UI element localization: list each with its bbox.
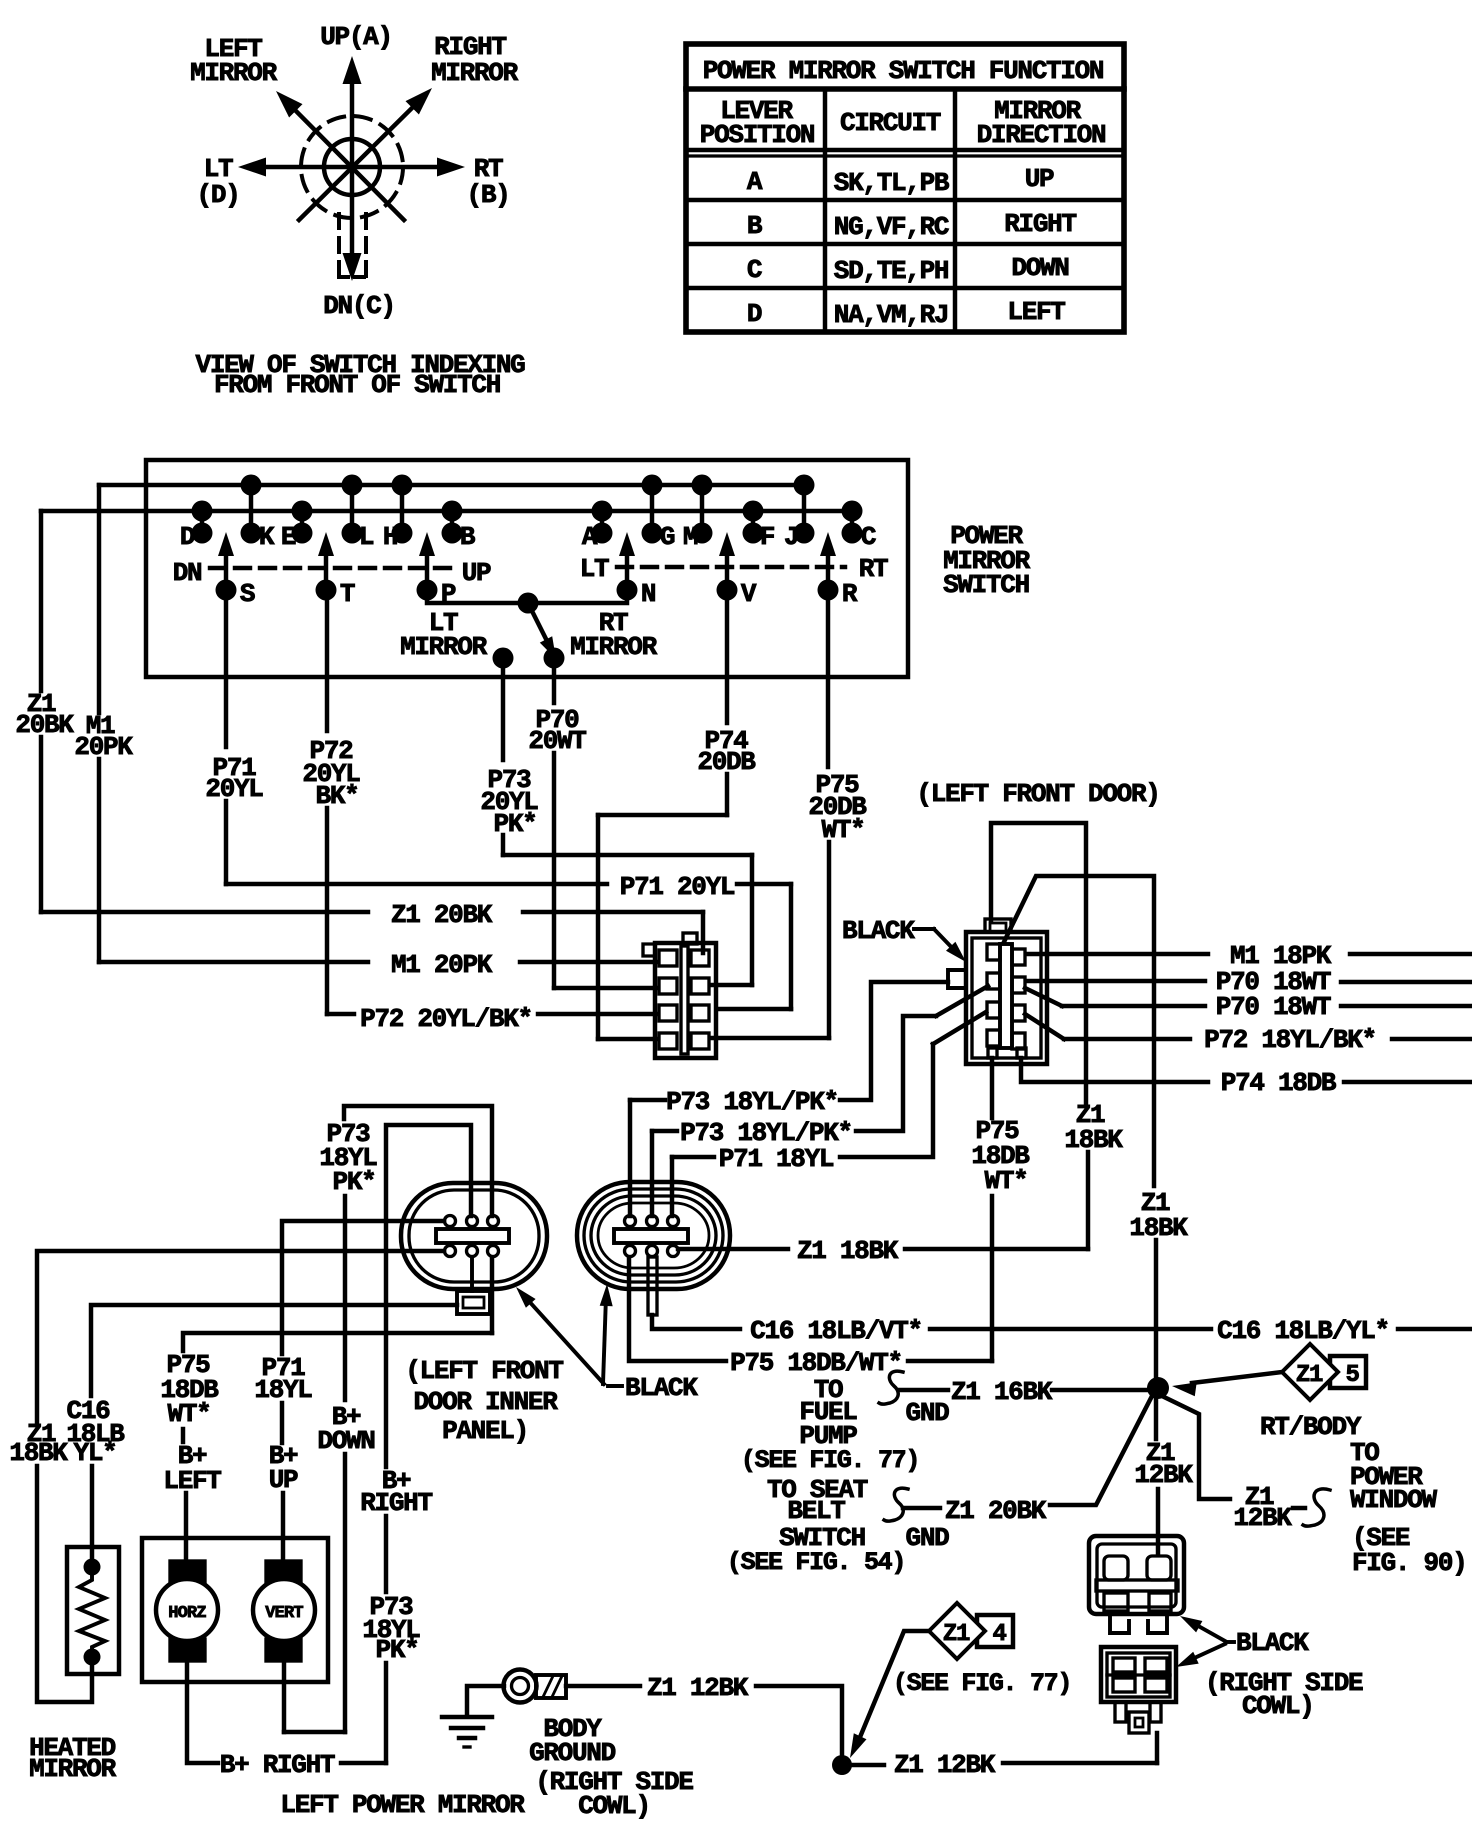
door connector right pin y1013 [1012,1005,1025,1021]
svg-text:BK*: BK* [316,781,359,811]
wire B+ RIGHT column [386,1125,471,1467]
wire Z1 20BK to connector [523,910,703,914]
inline connector left hook [643,944,655,956]
svg-text:PANEL): PANEL) [442,1416,528,1446]
wire Z1 20BK from second bus [39,511,43,691]
wire P73 18YL/PK first to door connector [840,982,948,1100]
arrow RT(B) head [437,158,465,177]
oval2 bottom pin x630 [625,1246,636,1257]
svg-text:(B): (B) [467,180,510,210]
wire Z1 12BK to power window [1164,1397,1230,1499]
oval1 bottom pin stem x493 [491,1246,494,1256]
door connector (left front door) [948,919,1047,1064]
wiper arrow S [224,556,228,590]
door connector outer shell [966,932,1047,1064]
oval1 lock tab [457,1291,490,1314]
svg-text:DOWN: DOWN [1011,253,1068,283]
dashed line LT-RT [617,565,845,569]
table row line 3 [686,286,1124,290]
svg-text:COWL): COWL) [578,1791,650,1821]
svg-text:MIRROR: MIRROR [29,1754,117,1784]
ring terminal crimp [536,1675,566,1698]
svg-text:FROM FRONT OF SWITCH: FROM FRONT OF SWITCH [214,370,500,400]
oval2 bottom pin stem x652 [650,1246,653,1256]
wire P71 18YL diagonal [933,1012,986,1044]
svg-text:LEFT POWER MIRROR: LEFT POWER MIRROR [280,1790,525,1820]
wire Z1 12BK from ring [566,1684,640,1688]
svg-text:POWER MIRROR SWITCH FUNCTION: POWER MIRROR SWITCH FUNCTION [703,56,1103,86]
BLACK arrow line to oval1 [527,1299,604,1384]
svg-text:Z1 12BK: Z1 12BK [894,1750,996,1780]
wire P to pivot [427,590,528,603]
svg-text:PK*: PK* [333,1167,376,1197]
svg-text:DIRECTION: DIRECTION [977,120,1106,150]
wire N to pivot [528,590,627,603]
ring terminal inner [512,1678,529,1695]
svg-text:A: A [582,522,598,552]
svg-text:UP: UP [269,1465,298,1495]
wire C16 to heated mirror [90,1466,94,1561]
junction dot second bus x602 [592,501,613,522]
inline connector left pin y958 [659,950,677,966]
svg-text:RT: RT [859,554,888,584]
Z1-5 box [1330,1356,1366,1388]
cowl upper right leg [1148,1614,1167,1633]
wire second bus [41,509,852,513]
contact dot R [818,580,839,601]
contact dot x804 [794,523,815,544]
svg-text:F: F [760,522,775,552]
switch indexing diagram [190,22,525,400]
wire Z1 20BK dash [903,1506,940,1510]
contact dot x602 [592,523,613,544]
inline connector (switch to door harness) [643,933,716,1058]
wire P73 first drop to oval2 [628,1100,632,1216]
wire P73 second diagonal [936,986,988,1016]
svg-text:R: R [842,579,858,609]
switch enclosure [146,460,908,677]
contact stub x202 [200,511,204,533]
junction dot Z1 12BK [832,1755,852,1775]
svg-text:C: C [861,522,876,552]
wire M1 20PK to connector [520,960,657,964]
svg-text:C: C [747,255,762,285]
svg-text:Z1: Z1 [943,1621,970,1648]
svg-text:P73 18YL/PK*: P73 18YL/PK* [666,1087,838,1117]
inline connector right pin y1013 [691,1005,709,1021]
contact stub x702 [700,485,704,533]
wiper arrow R [826,556,830,590]
oval2 top pin stem x652 [650,1216,653,1226]
VERT top terminal [266,1561,301,1583]
svg-text:D: D [747,299,762,329]
cowl connector lower outer [1101,1647,1176,1702]
cowl upper slot 1 [1104,1556,1128,1580]
cowl connector lower inner [1107,1653,1170,1697]
wire P71 20YL drop [789,884,793,1009]
wire P71 drop to oval2 [670,1157,674,1216]
svg-text:FIG. 90): FIG. 90) [1352,1548,1466,1578]
contact dot P [417,580,438,601]
cowl lower center tab inner [1135,1718,1143,1727]
wiper arrow N [625,556,629,590]
arrow UP(A) head [343,56,362,84]
wire Z1 12BK to splice [756,1686,842,1765]
oval2 top pin stem x673 [671,1216,674,1226]
dashed switch outline circle [301,116,403,218]
svg-text:P71 18YL: P71 18YL [719,1144,834,1174]
wire B+ RIGHT to column [341,1761,386,1765]
oval2 shell 2 [584,1189,723,1282]
junction dot top bus x804 [794,475,815,496]
BLACK leader line [934,929,958,954]
oval1 top pin stem x450 [448,1216,451,1226]
junction dot top bus x402 [392,475,413,496]
svg-text:B+ RIGHT: B+ RIGHT [220,1750,335,1780]
wire B+ RIGHT lower [384,1663,388,1763]
svg-text:D: D [180,522,195,552]
svg-text:20BK: 20BK [15,710,74,740]
svg-text:Z1 18BK: Z1 18BK [797,1236,899,1266]
door connector left pin y1038 [987,1030,1000,1046]
wire B+ LEFT to HORZ motor [184,1493,188,1561]
contact dot x652 [642,523,663,544]
oval1 top pin stem x472 [470,1216,473,1226]
contact stub x753 [751,511,755,533]
wiper arrow T [324,556,328,590]
svg-text:LT: LT [580,554,609,584]
junction dot second bus x452 [442,501,463,522]
svg-text:L: L [359,522,374,552]
svg-text:(LEFT FRONT DOOR): (LEFT FRONT DOOR) [916,779,1159,809]
resistor zigzag [79,1567,105,1657]
contact stub x302 [300,511,304,533]
inline connector body [655,943,716,1058]
svg-text:BLACK: BLACK [842,916,915,946]
contact dot x402 [392,523,413,544]
oval1 inner shell [409,1190,539,1282]
wire P75 lower segment [827,842,831,1038]
ring terminal outer [504,1670,537,1703]
wire P75 18DB/WT vertical [990,1058,994,1118]
arrow DN(C) shaft [350,167,354,254]
door connector bottom stub right [1017,1048,1026,1058]
oval2 shell 4 [598,1203,709,1268]
svg-text:Z1 16BK: Z1 16BK [951,1377,1053,1407]
table outer border [686,44,1124,332]
wire Z1 18BK to right [905,1247,1088,1251]
svg-text:WT*: WT* [168,1399,211,1429]
table row line 2 [686,242,1124,246]
svg-text:J: J [784,522,798,552]
oval1 terminal bar [436,1229,509,1243]
BLACK dash [608,1384,622,1388]
arrow line Z1-5 to junction [1192,1372,1282,1383]
oval2 bottom pin x652 [647,1246,658,1257]
oval2 bottom pin stem x673 [671,1246,674,1256]
svg-text:DOWN: DOWN [317,1426,374,1456]
dashed lever tab [337,214,341,278]
lever arrowhead [540,636,556,659]
heated mirror bottom dot [84,1649,101,1666]
svg-text:MIRROR: MIRROR [431,58,519,88]
wire Z1 18BK to junction [1154,1240,1158,1439]
svg-text:GROUND: GROUND [529,1738,616,1768]
inline connector left pin y1041 [659,1033,677,1049]
table header double line [686,148,1124,152]
svg-text:(LEFT FRONT: (LEFT FRONT [405,1356,563,1386]
junction dot top bus x251 [241,475,262,496]
door connector left pin y981 [987,973,1000,989]
wire Z1 20BK drop [701,912,705,953]
svg-text:5: 5 [1345,1362,1359,1389]
wire P71 20YL after label [737,882,791,886]
wire P72 20YL/BK from contact T [325,590,329,731]
svg-text:BLACK: BLACK [625,1373,698,1403]
svg-text:G: G [660,522,675,552]
oval2 top pin x652 [647,1216,658,1227]
arrow RT(B) shaft [352,165,439,169]
svg-text:GND: GND [906,1523,950,1553]
cowl connector upper outer [1089,1536,1184,1614]
contact dot x702 [692,523,713,544]
door boundary inner lead / Z1 18BK main [1003,876,1154,1186]
wiper arrow V [725,556,729,590]
wiper arrow P [425,556,429,590]
contact dot x251 [241,523,262,544]
squiggle GND fuel pump [879,1371,903,1404]
contact stub x602 [600,511,604,533]
junction dot top bus x652 [642,475,663,496]
svg-text:PK*: PK* [376,1635,419,1665]
svg-text:(SEE FIG. 77): (SEE FIG. 77) [893,1669,1071,1698]
door connector left hook [948,970,966,988]
wire P73 to connector [710,983,752,987]
oval1 top pin x472 [467,1216,478,1227]
contact dot x452 [442,523,463,544]
oval1 bottom pin x493 [488,1246,499,1257]
svg-text:C16 18LB/YL*: C16 18LB/YL* [1217,1316,1389,1346]
junction dot Z1 splice [1147,1377,1169,1399]
LT mirror contact dot [493,648,514,669]
inline connector left pin y1013 [659,1005,677,1021]
wire P74 mid segment [725,774,729,815]
oval2 bottom tail [648,1257,657,1315]
wire P73 18YL/PK first [630,1098,665,1102]
svg-text:12BK: 12BK [1233,1503,1292,1533]
cowl upper slot 2 [1147,1556,1171,1580]
svg-text:(D): (D) [197,180,240,210]
wire P74 horizontal [598,813,727,817]
inline connector right pin y958 [691,950,709,966]
svg-text:C16 18LB/VT*: C16 18LB/VT* [750,1316,922,1346]
svg-text:RT/BODY: RT/BODY [1260,1412,1362,1442]
contact dot T [316,580,337,601]
oval connector right (male) [577,1182,730,1315]
wire P71 20YL horizontal [226,882,607,886]
contact stub x402 [400,485,404,533]
svg-text:COWL): COWL) [1242,1691,1314,1721]
contact stub x251 [249,485,253,533]
wire C16 18LB/YL column [91,1305,457,1396]
power mirror switch function table [686,44,1124,332]
door connector bottom stub left [988,1048,997,1058]
svg-text:UP: UP [462,558,491,588]
door connector top tab inner [990,923,1006,932]
BLACK arrow to upper cowl [1193,1623,1225,1641]
arrow line Z1-4 to splice [858,1631,929,1742]
cowl lower slot 2 [1145,1658,1167,1672]
oval2 top pin x630 [625,1216,636,1227]
svg-text:P71 20YL: P71 20YL [620,872,735,902]
svg-text:(SEE FIG. 54): (SEE FIG. 54) [727,1548,905,1577]
svg-text:P74 18DB: P74 18DB [1221,1068,1337,1098]
svg-text:18YL: 18YL [254,1375,312,1405]
svg-text:SK,TL,PB: SK,TL,PB [834,168,950,198]
oval1 bottom pin stem x450 [448,1246,451,1256]
contact stub x652 [650,485,654,533]
arrow DN(C) head [343,253,362,281]
svg-text:SWITCH: SWITCH [943,570,1029,600]
wire P74 18DB [1021,1058,1208,1082]
wire P73 18YL/PK second [652,1129,677,1133]
svg-text:UP: UP [1025,164,1054,194]
wire C16 crossing [930,1327,1211,1331]
HORZ bottom terminal [170,1639,205,1661]
cowl upper mid bar [1096,1580,1178,1591]
wire Z1 20BK diagonal to junction [1050,1396,1152,1505]
oval1 lock tab inner [463,1297,484,1308]
contact dot x753 [743,523,764,544]
wire P74 20DB from contact V [725,590,729,723]
HORZ motor circle [156,1579,218,1641]
wire Z1 18BK below label [1086,1152,1090,1249]
oval1 top pin stem x493 [491,1216,494,1226]
wire Z1 18BK far-left column [37,1251,444,1423]
cowl lower center tab [1129,1712,1149,1733]
switch hub circle [324,139,380,195]
oval2 terminal bar [614,1229,688,1243]
svg-text:20PK: 20PK [74,732,133,762]
svg-text:P72 20YL/BK*: P72 20YL/BK* [360,1004,532,1034]
svg-text:VERT: VERT [265,1604,303,1623]
cowl lower slot 4 [1145,1678,1167,1692]
svg-text:MIRROR: MIRROR [400,632,488,662]
svg-text:E: E [281,522,296,552]
table row line 1 [686,198,1124,202]
contact dot S [216,580,237,601]
wire C16 to right edge [1398,1327,1472,1331]
wire to ground [467,1686,504,1716]
arrow LT(D) head [238,158,266,177]
wire Z1 18BK from oval2 [678,1247,788,1251]
door connector right pin y985 [1012,977,1025,993]
svg-text:DOOR INNER: DOOR INNER [413,1387,558,1417]
arrow LT(D) shaft [264,165,352,169]
svg-text:M: M [683,522,698,552]
svg-text:12BK: 12BK [1134,1460,1193,1490]
inline connector top tab [683,933,697,944]
heated mirror box [67,1547,119,1674]
wire M1 18PK [1026,952,1208,956]
wire P71 18YL / B+ UP column [282,1221,444,1354]
lever arm [528,603,547,641]
cowl lower mid bar [1107,1673,1170,1676]
wire P75 label to vertical [908,1359,992,1363]
oval2 top pin x673 [668,1216,679,1227]
RT mirror contact dot [544,648,565,669]
door connector top tab [985,919,1011,932]
contact stub x452 [450,511,454,533]
oval1 top pin x493 [488,1216,499,1227]
oval2 bottom pin stem x630 [628,1246,631,1256]
cowl upper slot 4 [1149,1593,1171,1611]
wire B+ DOWN to VERT bottom [284,1730,345,1734]
contact dot x852 [842,523,863,544]
oval1 bottom pin x450 [445,1246,456,1257]
wire P75 18DB WT / B+ LEFT column [490,1258,494,1333]
oval1 bottom pin x472 [467,1246,478,1257]
crimp hatch 1 [543,1676,553,1697]
wire M1 20PK from top bus [97,485,101,713]
wire B+ UP to VERT motor [281,1493,285,1561]
arrow RIGHT MIRROR shaft [299,107,413,220]
door connector right pin y957 [1012,949,1025,965]
svg-text:20YL: 20YL [205,774,263,804]
wire P73 18YL PK / B+ DOWN column [344,1106,492,1216]
junction dot top bus x352 [342,475,363,496]
svg-text:V: V [741,579,757,609]
wire Z1 20BK lower segment [39,737,43,912]
contact stub x352 [350,485,354,533]
wire P72 lower segment [325,808,329,1014]
svg-text:S: S [240,579,255,609]
svg-text:B: B [747,211,763,241]
svg-text:RIGHT: RIGHT [1004,209,1076,239]
oval1 lock tab lead [470,1257,474,1291]
svg-text:Z1 20BK: Z1 20BK [945,1496,1047,1526]
svg-text:UP(A): UP(A) [320,22,392,52]
junction dot second bus x753 [743,501,764,522]
squiggle GND seat belt [884,1488,908,1521]
BLACK cowl dash [1227,1640,1234,1644]
svg-text:GND: GND [906,1398,950,1428]
table line under title [686,86,1124,92]
wire VERT bottom drop [282,1661,286,1732]
door connector center bar [1000,944,1012,1048]
BLACK arrowhead [946,942,966,962]
svg-text:LEFT: LEFT [1007,297,1065,327]
arrow LEFT MIRROR head [276,91,303,118]
wire B+ RIGHT bottom [187,1661,218,1763]
wire P73 20YL/PK from LT mirror contact [501,658,505,760]
dash to squiggle [1293,1506,1305,1510]
svg-text:DN(C): DN(C) [323,291,395,321]
arrow RIGHT MIRROR head [406,88,433,115]
wire P73 second drop to oval2 [650,1131,654,1216]
svg-text:CIRCUIT: CIRCUIT [840,108,941,138]
contact dot V [717,580,738,601]
contact dot x202 [192,523,213,544]
wire P74 drop [596,815,600,1039]
wire top bus [99,483,804,487]
wire P71 20YL to connector [717,1007,791,1011]
svg-text:T: T [340,579,355,609]
svg-text:NA,VM,RJ: NA,VM,RJ [834,300,948,330]
contact stub x852 [850,511,854,533]
svg-text:18BK: 18BK [9,1438,68,1468]
contact dot N [617,580,638,601]
